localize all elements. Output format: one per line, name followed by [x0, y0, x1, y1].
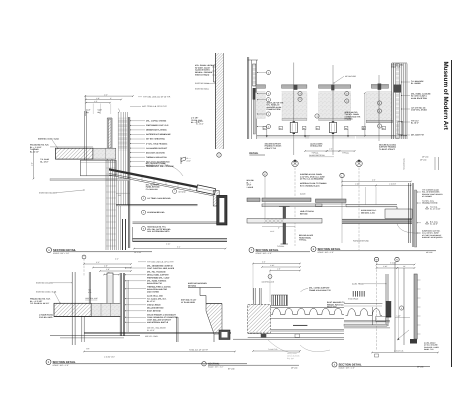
detail 6: slab infill right portion — [93, 148, 116, 159]
plan: top wall band 4 — [371, 84, 388, 88]
svg-text:CONTROL LINE: CONTROL LINE — [262, 280, 275, 283]
svg-text:1'-0": 1'-0" — [329, 148, 333, 151]
svg-text:MULLION BEYOND: MULLION BEYOND — [147, 307, 164, 310]
grid bubble Y below wall — [217, 153, 221, 157]
svg-text:EL. 46'-8": EL. 46'-8" — [430, 223, 438, 226]
svg-text:M: M — [376, 258, 378, 261]
skylight eave gutter box — [197, 185, 216, 195]
svg-text:4'-3 1/2" A.B.: 4'-3 1/2" A.B. — [394, 350, 404, 353]
svg-text:EL. 47'-2 3/4": EL. 47'-2 3/4" — [430, 208, 441, 211]
detail 6: curtain-wall mullion assembly (vertical) — [118, 118, 127, 150]
detail 3: verticals above hatch — [253, 288, 255, 305]
svg-text:24'-9": 24'-9" — [187, 159, 192, 162]
keynote + beyond — [173, 189, 177, 193]
svg-text:THERMAL INSULATION: THERMAL INSULATION — [146, 156, 167, 159]
detail 4: verticals — [394, 262, 396, 352]
svg-text:SCALE : 3/4" = 1'-0": SCALE : 3/4" = 1'-0" — [318, 251, 335, 254]
detail 8: band left — [316, 199, 347, 203]
svg-text:PANEL TYP.: PANEL TYP. — [424, 348, 434, 351]
svg-text:SCALE : 3/4" = 1'-0": SCALE : 3/4" = 1'-0" — [53, 252, 70, 255]
svg-text:EXISTING WALL: EXISTING WALL — [195, 82, 209, 85]
detail 5: ceiling/floor lines — [84, 332, 231, 334]
svg-text:2'-10": 2'-10" — [166, 243, 171, 246]
svg-text:EL. 44'-10": EL. 44'-10" — [30, 150, 39, 153]
svg-text:3: 3 — [268, 71, 269, 74]
svg-text:W/ MULLIONS: W/ MULLIONS — [310, 145, 323, 148]
svg-text:1'-8": 1'-8" — [96, 97, 100, 100]
skylight support lines below — [109, 173, 213, 194]
detail 8: grid line — [340, 173, 344, 177]
svg-text:cond. at plank: cond. at plank — [287, 355, 299, 358]
svg-text:EXISTING COLUMN: EXISTING COLUMN — [39, 192, 57, 195]
svg-text:TYPICAL: TYPICAL — [342, 152, 349, 155]
detail 3: hatched existing wall — [248, 305, 271, 334]
svg-text:AVG. TOTAL A.B. OF 10 TYP.: AVG. TOTAL A.B. OF 10 TYP. — [142, 105, 167, 108]
svg-text:3: 3 — [268, 92, 269, 95]
detail 6: top dimension stack — [84, 95, 86, 116]
svg-text:AT FIN. CLG. AS REQUIRED: AT FIN. CLG. AS REQUIRED — [300, 178, 324, 181]
svg-text:5: 5 — [401, 307, 402, 310]
svg-text:4: 4 — [143, 211, 144, 214]
svg-text:CONTROL LINE: CONTROL LINE — [85, 297, 98, 300]
plan detail: left jamb assembly — [247, 57, 249, 139]
svg-text:SECTION DETAIL: SECTION DETAIL — [256, 248, 279, 252]
detail 4 label — [332, 362, 337, 367]
detail 6: vertical pair above slab — [83, 111, 85, 160]
detail 6: lower mullion ladder — [106, 161, 116, 163]
plan: mullion box bay1/2 — [290, 122, 297, 132]
svg-text:BEYOND: BEYOND — [179, 190, 187, 193]
svg-text:4'-0": 4'-0" — [372, 179, 376, 182]
svg-text:EXIST. BEYOND: EXIST. BEYOND — [147, 310, 161, 313]
detail 6: existing wall hatch (right) — [216, 53, 224, 149]
svg-text:brg. typ.: brg. typ. — [287, 357, 295, 360]
elev marker 2 — [426, 222, 429, 225]
detail 6: elevation flag marker — [181, 157, 186, 164]
svg-text:EL. 48'-3": EL. 48'-3" — [196, 123, 204, 126]
svg-text:MP 1/48: MP 1/48 — [420, 159, 426, 162]
svg-text:3-5/8" MTL. STUDS: 3-5/8" MTL. STUDS — [411, 109, 428, 112]
detail 6: floor/beam bottom lines — [132, 227, 134, 241]
detail 6: bottom dim line — [134, 248, 226, 250]
detail 4: furring channel band — [344, 324, 387, 326]
detail 7: ceiling band w/ bridging — [247, 219, 322, 224]
svg-text:MTL. COPING SYSTEM: MTL. COPING SYSTEM — [146, 120, 167, 123]
mullion insulation strip — [108, 119, 111, 148]
detail 4: top dims — [377, 264, 415, 266]
svg-text:1'-8": 1'-8" — [106, 268, 110, 271]
detail 3: plank scallop profile — [270, 308, 344, 314]
detail 6: lower notes — [141, 227, 145, 231]
step detail label — [202, 362, 206, 366]
svg-text:3'-2 1/2": 3'-2 1/2" — [390, 262, 397, 265]
svg-text:SCALE : 3/4" = 1'-0": SCALE : 3/4" = 1'-0" — [256, 252, 273, 255]
detail 8: ceiling line — [346, 204, 397, 206]
detail 4: stone panel thick bar — [414, 274, 417, 339]
svg-text:TOTAL A.B. OF 10 TYP.: TOTAL A.B. OF 10 TYP. — [189, 349, 209, 352]
plan: bottom tick row (interior finish) — [257, 135, 310, 137]
svg-text:2'-2": 2'-2" — [96, 261, 100, 264]
detail 7: orientation symbol — [292, 160, 298, 166]
detail 5: bottom structure — [219, 330, 230, 340]
detail 3: plank top line — [270, 307, 344, 309]
svg-text:SECTION:: SECTION: — [208, 362, 220, 365]
detail 3: bottom dim marks — [253, 350, 300, 352]
plan: B.O. boxes — [263, 126, 266, 129]
svg-text:verify exist.: verify exist. — [287, 352, 297, 355]
svg-text:3: 3 — [379, 102, 380, 105]
plan: right vertical dim — [364, 93, 366, 136]
detail 4: joist bars — [352, 291, 354, 297]
svg-text:6" MTL. STUD FRAMING: 6" MTL. STUD FRAMING — [146, 142, 168, 145]
svg-text:EL. 45'-6": EL. 45'-6" — [147, 329, 155, 332]
svg-text:2'-2": 2'-2" — [104, 93, 108, 96]
svg-text:T.O. SLAB EL. 44'-10": T.O. SLAB EL. 44'-10" — [30, 302, 49, 305]
plan: right wall assembly — [391, 63, 393, 139]
svg-text:WATERPROOF MEMBRANE: WATERPROOF MEMBRANE — [146, 133, 171, 136]
svg-text:MTL. PNL. TRANSOM: MTL. PNL. TRANSOM — [147, 271, 166, 274]
svg-text:MP 1/48: MP 1/48 — [422, 156, 428, 159]
svg-text:1'-2": 1'-2" — [277, 268, 281, 271]
svg-text:1'-2": 1'-2" — [94, 100, 98, 103]
detail 4: bottom block — [410, 339, 417, 344]
svg-text:SHIM SPACE: SHIM SPACE — [348, 298, 359, 301]
detail 5: slab infill right (panels) — [91, 303, 120, 316]
svg-text:BEYOND: BEYOND — [300, 212, 308, 215]
detail 6: hatched existing concrete slab — [56, 148, 94, 159]
plan: top wall band 3 — [319, 85, 351, 88]
svg-text:3: 3 — [143, 197, 144, 200]
svg-text:1'-10 3/4": 1'-10 3/4" — [389, 183, 397, 186]
svg-text:10": 10" — [403, 265, 406, 268]
svg-text:EXISTING CONC. SLAB: EXISTING CONC. SLAB — [36, 291, 57, 294]
svg-text:3: 3 — [268, 125, 269, 128]
svg-text:TO EXIST. STRUCT.: TO EXIST. STRUCT. — [379, 148, 396, 151]
detail 7: W-beam below — [283, 207, 286, 244]
svg-text:3'-1": 3'-1" — [177, 245, 181, 248]
svg-text:F.O. MULLION: F.O. MULLION — [146, 188, 158, 191]
plan: right wall lower component — [398, 121, 403, 134]
svg-text:BRACKET ANCHORS: BRACKET ANCHORS — [146, 151, 166, 154]
svg-text:MC ANCHOR: MC ANCHOR — [345, 75, 357, 78]
detail 5: soffit verticals — [81, 316, 83, 342]
svg-text:GALVANIZED SUPPORT: GALVANIZED SUPPORT — [146, 147, 168, 150]
svg-text:SUPPORT AS REQUIRED: SUPPORT AS REQUIRED — [422, 236, 443, 239]
detail 6: column dark box — [217, 195, 227, 225]
detail 4: centerline — [376, 262, 378, 350]
svg-text:PREFORMED CONT. CLIP: PREFORMED CONT. CLIP — [146, 124, 169, 127]
svg-text:FRAME & BLOCKING TYP.: FRAME & BLOCKING TYP. — [309, 289, 332, 292]
plan: stone panel 1 (stipple) — [256, 93, 266, 119]
detail 4: plank lines — [344, 302, 382, 304]
svg-text:MP 1/48: MP 1/48 — [291, 366, 297, 369]
svg-text:MTL.: MTL. — [88, 291, 92, 294]
detail 3: joist bars — [272, 295, 288, 306]
svg-text:3: 3 — [379, 125, 380, 128]
svg-text:BEYOND: BEYOND — [188, 284, 197, 287]
svg-text:1'-10": 1'-10" — [355, 183, 360, 186]
svg-text:EXISTING CONC. SLAB: EXISTING CONC. SLAB — [38, 137, 59, 140]
plan: stone panel 3 — [319, 93, 351, 119]
svg-text:1'-9": 1'-9" — [118, 194, 122, 197]
svg-text:FRAMING: FRAMING — [345, 118, 354, 121]
svg-text:2'-2": 2'-2" — [115, 258, 119, 261]
detail 6: soffit box below slab — [80, 160, 115, 176]
svg-text:EXISTING COLUMN: EXISTING COLUMN — [36, 282, 54, 285]
plan: mullion anchor marks at bands — [293, 85, 297, 90]
svg-text:3: 3 — [299, 98, 300, 101]
svg-text:SECTION DETAIL: SECTION DETAIL — [53, 248, 76, 252]
svg-text:AT CORNER: AT CORNER — [422, 195, 433, 198]
svg-text:Museum of Modern Art: Museum of Modern Art — [442, 62, 449, 131]
svg-text:FRAMING SYSTEM: FRAMING SYSTEM — [422, 202, 438, 205]
svg-text:EL. 47'-6": EL. 47'-6" — [147, 300, 155, 303]
elev marker 1 — [426, 207, 429, 210]
detail 7: band 2 — [262, 204, 322, 207]
svg-text:2'-0": 2'-0" — [104, 265, 108, 268]
svg-text:PREFORMED MTL. CLEAT: PREFORMED MTL. CLEAT — [147, 277, 170, 280]
plan: stone panel 4 — [366, 93, 392, 121]
svg-text:MP 1/48: MP 1/48 — [426, 251, 432, 254]
svg-text:TYP. DIM. LINE A.B. OF 10 TYP.: TYP. DIM. LINE A.B. OF 10 TYP. — [147, 261, 174, 264]
svg-text:EXISTING WALL: EXISTING WALL — [195, 88, 209, 91]
detail 4: keynote circle — [399, 306, 403, 310]
svg-text:SECTION DETAIL: SECTION DETAIL — [318, 247, 341, 251]
detail 5: dimension stack — [84, 263, 131, 265]
svg-text:SEE STL. DWG.: SEE STL. DWG. — [145, 335, 159, 338]
svg-text:SHIM AS REQ'D: SHIM AS REQ'D — [147, 304, 161, 307]
plan: down arrows — [266, 130, 268, 137]
svg-text:GLASS PARTITION: GLASS PARTITION — [309, 154, 325, 157]
detail 8: shelf structure — [396, 207, 398, 215]
svg-text:DETAIL: DETAIL — [249, 152, 258, 155]
plan: top wall band 2 — [282, 85, 307, 88]
svg-text:W18 BEAM BEYOND: W18 BEAM BEYOND — [147, 211, 165, 214]
svg-text:CONT. CLEAT EA. SIDE, SLOPE: CONT. CLEAT EA. SIDE, SLOPE — [147, 267, 175, 270]
detail 6 label — [47, 248, 52, 253]
svg-text:SEE DWG. A-501: SEE DWG. A-501 — [361, 211, 375, 214]
detail 5: right step detail (existing) — [188, 287, 221, 289]
detail 3: swoopy leaders — [300, 345, 330, 352]
svg-text:ALUM. EDGE TRIM: ALUM. EDGE TRIM — [411, 97, 427, 100]
detail 4: plank scallops — [346, 309, 383, 316]
svg-text:3: 3 — [346, 100, 347, 103]
detail 6: sloped skylight glazing (thick band) — [109, 168, 213, 191]
svg-text:EL. 43'-8": EL. 43'-8" — [40, 160, 48, 163]
detail 6: left vertical dim — [33, 149, 35, 179]
svg-text:TYPICAL: TYPICAL — [299, 239, 307, 242]
plan: keynote leaders — [258, 72, 267, 74]
svg-text:BOT. CHANNEL BLACK: BOT. CHANNEL BLACK — [300, 185, 320, 188]
svg-text:SGD. SYSTEM BRACKETS: SGD. SYSTEM BRACKETS — [147, 230, 170, 233]
detail 7 label — [249, 248, 254, 253]
svg-text:3: 3 — [268, 98, 269, 101]
svg-text:ALUM. MULL. DIM.: ALUM. MULL. DIM. — [147, 295, 163, 298]
svg-text:AND SYSTEM: AND SYSTEM — [147, 291, 159, 294]
svg-text:7: 7 — [174, 190, 175, 193]
detail 8: note leaders — [417, 191, 421, 193]
svg-text:DP 1-1/2: DP 1-1/2 — [134, 251, 141, 254]
svg-text:EL. 48'-3": EL. 48'-3" — [411, 122, 419, 125]
svg-text:SHIM AS REQ'D: SHIM AS REQ'D — [195, 73, 210, 76]
svg-text:EL. VARIES: EL. VARIES — [411, 82, 421, 85]
svg-text:1'-0": 1'-0" — [31, 162, 34, 166]
step hatch — [206, 304, 222, 335]
svg-text:AT SLAB EDGE: AT SLAB EDGE — [181, 301, 196, 304]
svg-text:TYP. DIM. LINE A.B. OF 10 TYP.: TYP. DIM. LINE A.B. OF 10 TYP. — [143, 96, 171, 99]
svg-text:FRAME SYSTEM: FRAME SYSTEM — [266, 108, 280, 111]
svg-text:STRUCT. TYP.: STRUCT. TYP. — [265, 147, 277, 150]
svg-text:1'-10": 1'-10" — [383, 265, 388, 268]
detail 4: mullion — [385, 274, 387, 326]
svg-text:MP 1/48: MP 1/48 — [417, 366, 423, 369]
svg-text:REQ'D TYP.: REQ'D TYP. — [327, 306, 337, 309]
svg-text:SECTION DETAIL: SECTION DETAIL — [53, 360, 76, 364]
svg-text:SCALE : 3/4" = 1'-0": SCALE : 3/4" = 1'-0" — [208, 365, 224, 368]
detail 6: ceiling gray band — [50, 179, 130, 181]
curb hatch below eave — [213, 191, 219, 207]
detail 6: beam line pair — [133, 221, 217, 223]
detail 5 label — [46, 360, 51, 365]
plan: stone panel 2 — [282, 93, 307, 119]
detail 4: lines below — [344, 320, 390, 322]
svg-text:AND INTERNAL BAFFLE: AND INTERNAL BAFFLE — [147, 321, 169, 324]
detail 4: grid bubbles — [374, 257, 378, 261]
detail 8: right mullion assembly — [408, 183, 410, 243]
detail 4: bottom dim — [372, 352, 438, 354]
svg-text:1/2" TEMP. GLASS BEYOND: 1/2" TEMP. GLASS BEYOND — [147, 197, 171, 200]
svg-text:1'-0" A.B.: 1'-0" A.B. — [196, 120, 204, 123]
title block border line — [451, 60, 453, 367]
detail 3: lines below plank — [270, 318, 344, 320]
detail 8 label — [311, 247, 316, 252]
svg-text:1'-10": 1'-10" — [270, 264, 275, 267]
svg-text:3: 3 — [268, 113, 269, 116]
detail 3: top dim stack — [253, 263, 300, 265]
svg-text:2'-2": 2'-2" — [262, 261, 266, 264]
svg-text:MEMBRANE FLASHING: MEMBRANE FLASHING — [146, 129, 167, 132]
svg-text:3: 3 — [379, 110, 380, 113]
detail 5: mullion verticals — [71, 272, 73, 345]
svg-text:9: 9 — [143, 227, 144, 230]
svg-text:SECTION DETAIL: SECTION DETAIL — [339, 362, 362, 366]
detail 8: orientation symbol — [356, 160, 362, 166]
svg-text:HORIZON BEYOND: HORIZON BEYOND — [353, 240, 370, 243]
detail 7: roof band 1 — [247, 198, 260, 202]
svg-text:3: 3 — [299, 92, 300, 95]
plan: bottom dims — [305, 150, 327, 152]
plan: keynote circles — [266, 70, 270, 74]
svg-text:5/8" EXT. SHEATHING: 5/8" EXT. SHEATHING — [146, 138, 166, 141]
detail 6: glass line below skylight — [116, 203, 198, 205]
detail 3: dark tabs — [261, 334, 267, 337]
svg-text:1 HOUR: 1 HOUR — [247, 186, 254, 189]
plan: thin lines under bands — [256, 91, 266, 93]
svg-text:BP 1/48: BP 1/48 — [228, 368, 234, 371]
detail 6: slab top line — [50, 146, 93, 148]
plan: top wall band 1 — [256, 85, 266, 88]
svg-text:MIT. JOINT TYP.: MIT. JOINT TYP. — [411, 134, 425, 137]
svg-text:ALIGN: ALIGN — [300, 193, 306, 196]
svg-text:ANCHOR @ 4'-0" O.C. TYP.: ANCHOR @ 4'-0" O.C. TYP. — [146, 164, 169, 167]
detail 7: grid bubble line — [263, 172, 267, 176]
plan: bay centerlines — [293, 63, 295, 123]
svg-text:TYP.: TYP. — [86, 348, 90, 351]
detail 5: bottom dim line — [84, 351, 235, 353]
svg-text:ALUM. FRAME: ALUM. FRAME — [352, 283, 365, 286]
svg-text:3: 3 — [316, 115, 317, 118]
detail 8: top dims — [342, 181, 411, 183]
plan: panel bottom bands — [282, 119, 307, 121]
svg-text:SCALE : 3/4" = 1'-0": SCALE : 3/4" = 1'-0" — [53, 364, 70, 367]
svg-text:INSULATION TYP.: INSULATION TYP. — [147, 282, 163, 285]
svg-text:METAL PANEL SUPPORT: METAL PANEL SUPPORT — [147, 274, 170, 277]
svg-text:2'-0": 2'-0" — [362, 126, 365, 130]
svg-text:1'-6 3/4" V.I.F.: 1'-6 3/4" V.I.F. — [104, 356, 116, 359]
plan: mullion box bay2/3 — [329, 122, 336, 132]
detail 5: centerline symbol — [82, 255, 86, 259]
svg-text:GYP. BD. ENCL.: GYP. BD. ENCL. — [39, 316, 54, 319]
svg-text:3: 3 — [346, 92, 347, 95]
svg-text:SCALE : 3/4" = 1'-0": SCALE : 3/4" = 1'-0" — [339, 367, 356, 370]
detail 5: hatched existing slab — [54, 303, 91, 316]
